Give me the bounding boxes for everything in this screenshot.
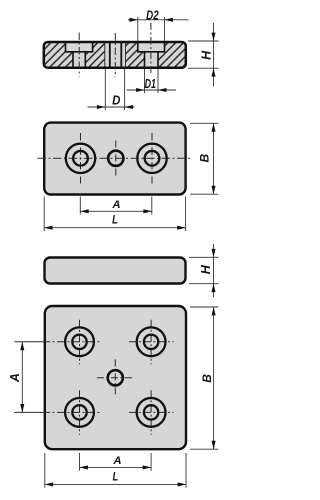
centerline left hole (78, 33, 80, 77)
counterbore left outline (66, 43, 93, 67)
L extension line right (185, 197, 187, 232)
rect plate body (44, 123, 185, 195)
svg-text:L: L (113, 469, 119, 483)
A arrowhead left (80, 209, 88, 213)
L arrowhead right (178, 482, 186, 486)
side view plate body (45, 258, 186, 284)
A arrowhead right (143, 465, 151, 469)
H arrowhead top (211, 33, 215, 41)
centerlines hole top-right (129, 320, 174, 365)
svg-text:B: B (197, 154, 211, 163)
B arrowhead bottom (211, 186, 215, 194)
dimension A (view2) (80, 197, 152, 215)
svg-text:H: H (199, 264, 213, 274)
L dimension line (45, 483, 186, 485)
counterbore right outline (138, 43, 165, 67)
svg-text:L: L (112, 213, 118, 227)
centerlines center hole (97, 359, 134, 396)
dimension A (view4, bottom) (80, 453, 152, 471)
L arrowhead right (177, 226, 185, 230)
A dimension line (80, 466, 152, 468)
centerlines hole top-left (14, 320, 101, 365)
centerlines hole bottom-right (129, 390, 174, 435)
B extension line top (190, 306, 218, 308)
section plate outline (44, 42, 186, 68)
L arrowhead left (45, 482, 53, 486)
D extension line right (124, 69, 126, 111)
A arrowhead left (80, 465, 88, 469)
svg-text:B: B (200, 374, 214, 383)
A extension line left (79, 197, 81, 215)
A extension line right (151, 197, 153, 215)
D2 extension line right (164, 17, 166, 41)
svg-text:A: A (111, 199, 120, 211)
A extension line right (150, 453, 152, 471)
B arrowhead top (211, 123, 215, 131)
D1 dimension line (127, 89, 177, 91)
B arrowhead top (212, 307, 216, 315)
counterbored hole left fill (66, 42, 93, 68)
D2 arrowhead left (129, 18, 137, 22)
L arrowhead left (44, 226, 52, 230)
A arrowhead bottom (20, 404, 24, 412)
horizontal centerline (38, 157, 193, 159)
H arrowhead top (211, 249, 215, 257)
L extension line left (43, 197, 45, 232)
D1 arrowhead right (158, 88, 166, 92)
svg-text:D1: D1 (145, 76, 156, 91)
H arrowhead bottom (211, 284, 215, 292)
A dimension line (80, 210, 152, 212)
D2 dimension line (128, 19, 189, 21)
svg-text:A: A (8, 373, 22, 383)
D arrowhead left (97, 105, 105, 109)
right counterbored hole circles (137, 144, 166, 173)
centerline right hole (150, 23, 152, 74)
A extension line left (79, 453, 81, 471)
D2 extension line left (137, 17, 139, 41)
B dimension line (213, 123, 215, 194)
vertical centerline left hole (80, 133, 82, 184)
centerline middle hole (114, 33, 116, 77)
vertical centerline middle hole (115, 141, 117, 177)
dimension H (section, right) (188, 23, 219, 87)
B dimension line (213, 307, 215, 449)
square plate body (45, 306, 186, 449)
A dimension line (21, 342, 23, 413)
middle hole thread lines (105, 43, 126, 67)
D dimension line (88, 106, 135, 108)
hole top-left circles (65, 327, 94, 356)
A arrowhead top (20, 342, 24, 350)
svg-text:D2: D2 (146, 8, 159, 23)
H extension line bottom (189, 283, 219, 285)
counterbored hole right fill (138, 42, 165, 68)
middle hole circle (108, 151, 123, 166)
dimension B (view2, right) (190, 123, 218, 194)
vertical centerline right hole (151, 133, 153, 184)
section plate body (hatched) (44, 42, 186, 68)
dimension D (88, 69, 135, 111)
L extension line left (44, 453, 46, 488)
dimension H (view3, right) (189, 244, 219, 297)
D2 arrowhead right (165, 18, 173, 22)
dimension L (view4, bottom) (45, 453, 186, 488)
center hole circle (108, 370, 123, 385)
dimension B (view4, right) (190, 307, 218, 449)
H extension line top (188, 40, 219, 42)
svg-text:H: H (199, 50, 213, 60)
hole bottom-right circles (137, 398, 166, 427)
svg-text:D: D (112, 92, 121, 107)
B arrowhead bottom (212, 441, 216, 449)
H arrowhead bottom (211, 68, 215, 76)
left counterbored hole circles (66, 144, 95, 173)
D1 extension line right (157, 69, 159, 94)
H extension line bottom (188, 67, 219, 69)
hole top-right circles (137, 327, 166, 356)
D1 extension line left (144, 69, 146, 94)
middle threaded hole fill (105, 42, 126, 68)
L extension line right (185, 453, 187, 488)
dimension L (view2) (44, 197, 185, 232)
B extension line top (190, 122, 218, 124)
centerlines hole bottom-left (14, 390, 101, 435)
D extension line left (104, 69, 106, 111)
B extension line bottom (190, 193, 218, 195)
A arrowhead right (143, 209, 151, 213)
svg-text:A: A (112, 455, 121, 467)
hole bottom-left circles (65, 398, 94, 427)
D arrowhead right (125, 105, 133, 109)
B extension line bottom (190, 448, 218, 450)
dimension D1 (127, 69, 177, 94)
H dimension line (213, 23, 215, 87)
H extension line top (189, 256, 219, 258)
D1 arrowhead left (136, 88, 144, 92)
H dimension line (213, 244, 215, 297)
L dimension line (44, 227, 185, 229)
dimension A (view4, left) (8, 342, 25, 413)
dimension D2 (128, 8, 189, 42)
